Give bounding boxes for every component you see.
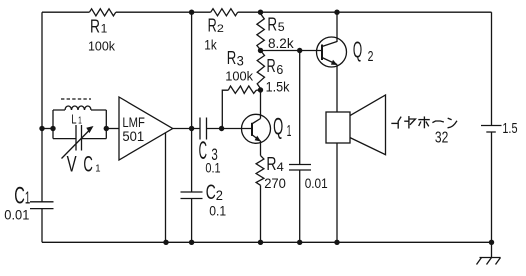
svg-text:Q: Q — [353, 37, 362, 63]
svg-text:1.5: 1.5 — [502, 121, 517, 137]
svg-text:R: R — [267, 56, 276, 76]
svg-text:6: 6 — [276, 62, 283, 77]
svg-text:1k: 1k — [204, 38, 216, 53]
svg-text:1: 1 — [101, 22, 108, 36]
svg-text:2: 2 — [368, 48, 374, 65]
svg-text:R: R — [90, 17, 100, 37]
svg-text:3: 3 — [237, 54, 244, 69]
svg-text:32: 32 — [435, 130, 448, 147]
svg-text:C: C — [83, 151, 93, 176]
svg-text:2: 2 — [217, 23, 224, 35]
svg-text:4: 4 — [277, 160, 285, 174]
svg-text:501: 501 — [122, 129, 144, 144]
svg-text:R: R — [227, 48, 237, 68]
svg-text:C: C — [14, 182, 25, 209]
svg-text:0.01: 0.01 — [305, 176, 328, 192]
svg-text:270: 270 — [264, 175, 286, 191]
svg-text:0.1: 0.1 — [209, 204, 226, 219]
svg-text:1: 1 — [78, 115, 82, 126]
svg-text:2: 2 — [216, 187, 223, 203]
svg-text:100k: 100k — [88, 38, 115, 53]
svg-text:1: 1 — [287, 123, 292, 140]
svg-text:C: C — [206, 181, 216, 204]
svg-text:0.1: 0.1 — [205, 161, 220, 176]
svg-text:1: 1 — [95, 164, 101, 175]
svg-text:R: R — [208, 16, 217, 36]
svg-text:0.01: 0.01 — [4, 207, 29, 223]
svg-text:1: 1 — [25, 187, 30, 207]
svg-text:LMF: LMF — [122, 115, 144, 130]
svg-text:L: L — [71, 111, 76, 126]
svg-text:R: R — [267, 15, 277, 35]
svg-text:100k: 100k — [225, 69, 253, 84]
svg-text:8.2k: 8.2k — [268, 35, 295, 51]
svg-text:Q: Q — [273, 114, 283, 141]
svg-text:R: R — [266, 154, 276, 174]
svg-text:V: V — [67, 151, 77, 176]
svg-text:1.5k: 1.5k — [266, 79, 291, 95]
svg-text:5: 5 — [278, 20, 285, 34]
